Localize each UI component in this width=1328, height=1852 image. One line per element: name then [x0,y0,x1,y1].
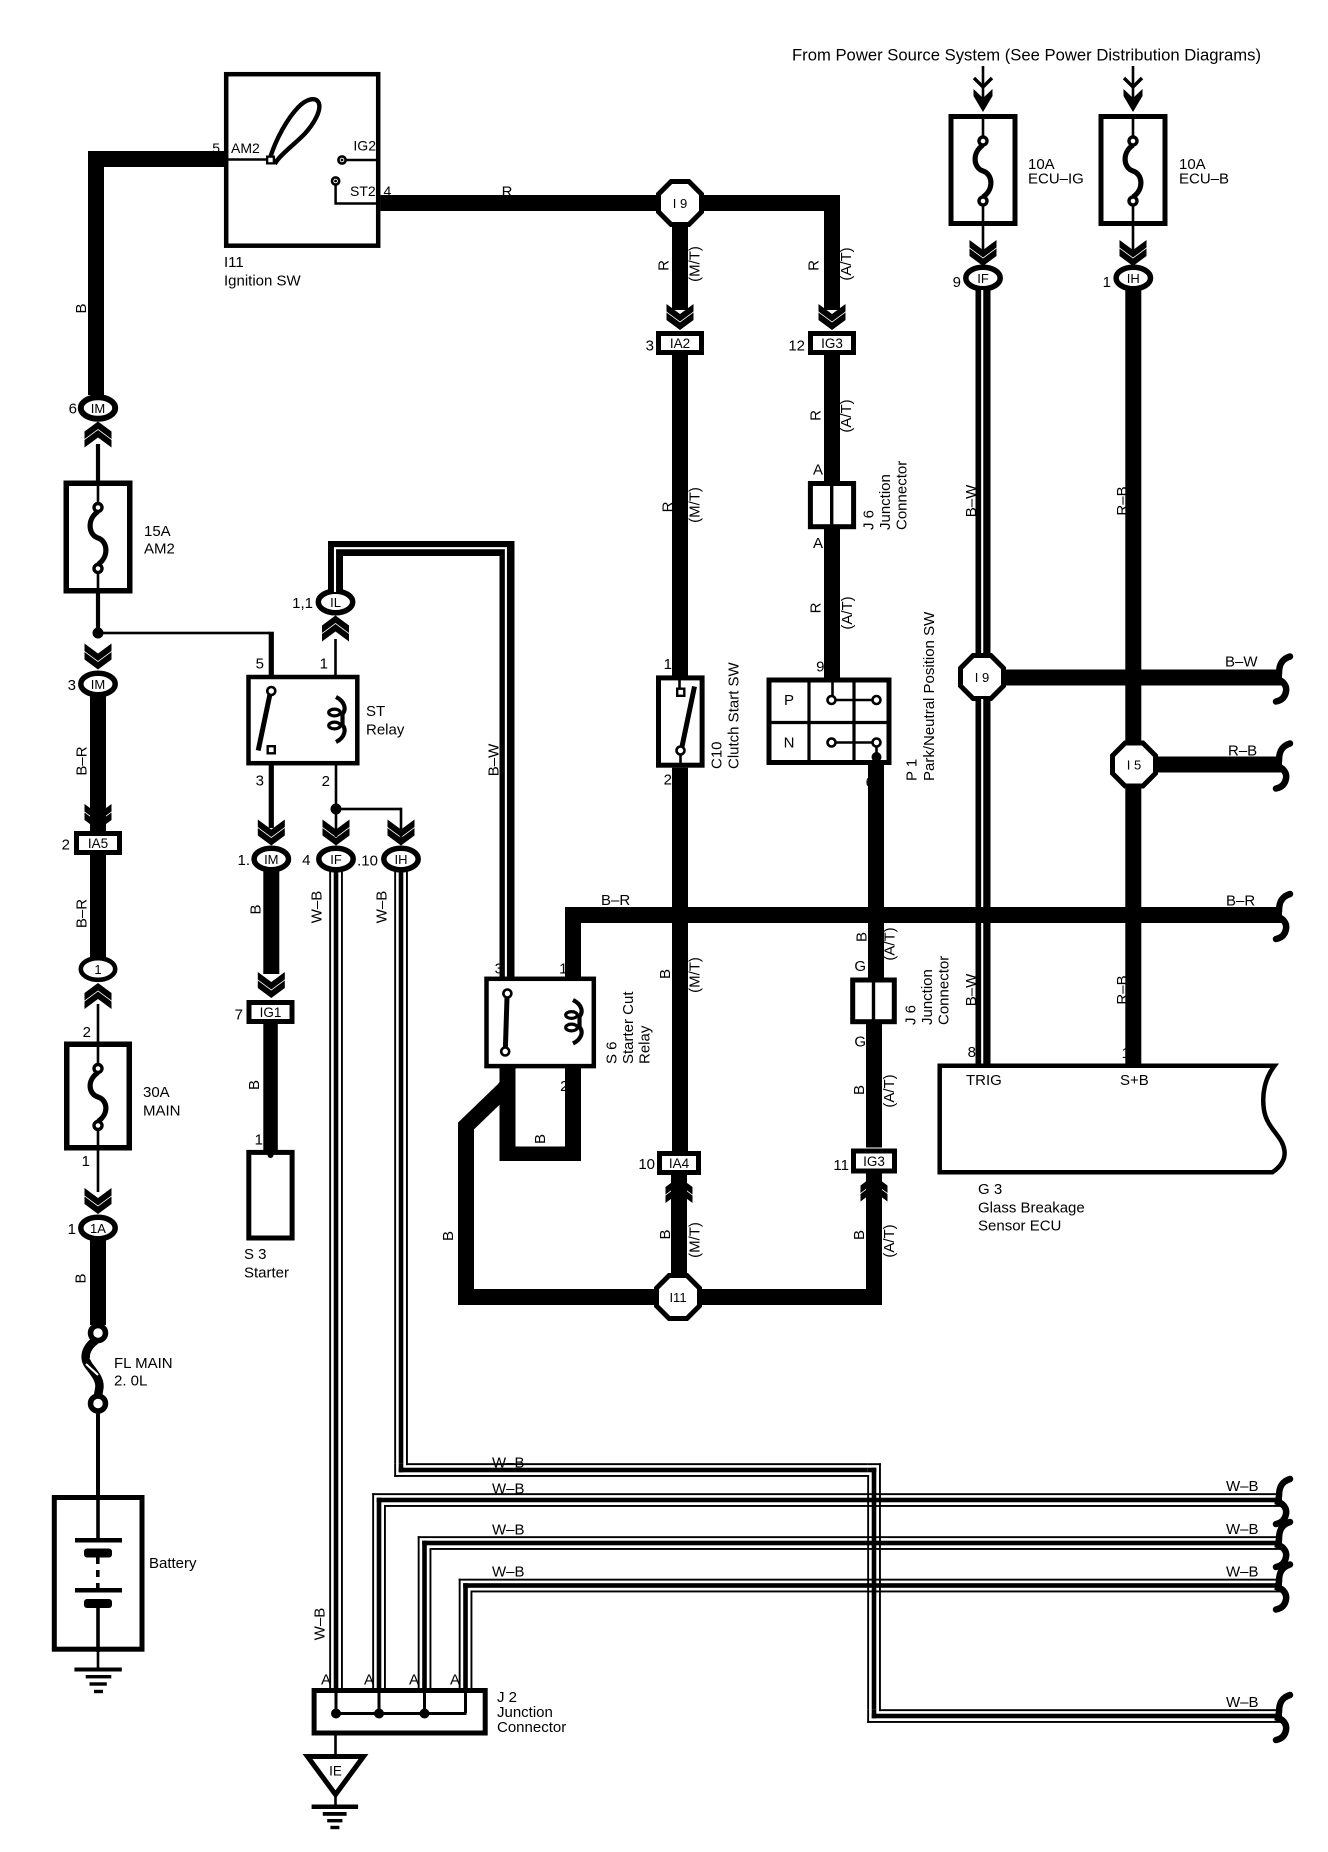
ground symbol below IE [312,1805,359,1810]
ignition switch AM2 contact [266,156,275,165]
wire R-B from I5 down to G3 S+B (thick) [1125,787,1141,1065]
svg-text:B: B [854,932,871,942]
splice I5 [1113,743,1156,786]
svg-text:W–B: W–B [1226,1694,1259,1711]
svg-text:R–B: R–B [1228,743,1257,760]
svg-text:From Power Source System (See: From Power Source System (See Power Dist… [792,47,1261,65]
svg-text:G: G [854,958,866,975]
wire B (A/T) from P1 pin 6 to J6 lower (thick) [868,763,884,978]
svg-text:B: B [246,1080,263,1090]
wire R (A/T) from J6 to park/neutral SW (thick) [824,529,840,679]
svg-text:MAIN: MAIN [143,1103,181,1120]
svg-text:B: B [532,1134,549,1144]
svg-text:Junction: Junction [877,474,894,530]
wire B from 1A to fusible link (thick) [90,1240,106,1325]
svg-text:1: 1 [320,656,328,673]
svg-text:IM: IM [264,852,278,867]
svg-text:1.: 1. [237,852,250,869]
svg-text:I 5: I 5 [1127,758,1141,773]
wire to IF (thin) [335,809,338,837]
svg-text:ST2: ST2 [350,183,376,199]
svg-text:G: G [854,1034,866,1051]
svg-text:I11: I11 [224,254,244,271]
svg-text:IF: IF [977,271,989,286]
svg-text:B: B [440,1231,457,1241]
wire B-W from IF-9 down to splice I9 (striped) [976,290,991,655]
S6 switch [503,990,511,998]
junction connector J6 upper [810,484,853,527]
svg-text:C10: C10 [708,741,725,769]
svg-text:B: B [248,904,265,914]
wire from ST relay pin 1 to IL (thin) [334,639,337,679]
wire B-R corner down to S6 pin 1 [565,907,581,979]
wire R M/T branch from I9 down to IA2 (thick) [672,225,688,310]
svg-text:8: 8 [968,1044,976,1061]
svg-text:2: 2 [62,837,70,854]
svg-text:J 6: J 6 [902,1005,919,1025]
wire B-R from IM-3 to IA5 (thick) [90,696,106,832]
wire from fuse ECU-IG to connector IF [982,226,985,250]
ST relay box [249,677,358,763]
svg-text:IH: IH [1127,271,1140,286]
svg-text:B: B [657,969,674,979]
svg-text:W–B: W–B [309,891,326,924]
svg-text:IG1: IG1 [260,1005,282,1020]
wire R-B from I5 right to edge (thick) [1156,757,1282,773]
svg-text:4: 4 [302,852,310,869]
svg-text:P: P [784,692,794,709]
svg-text:1: 1 [255,1132,263,1149]
wire B (A/T) from IG3-11 down and left to splice I11 (thick) [866,1174,882,1306]
svg-text:7: 7 [235,1007,243,1024]
junction connector J6 lower [853,980,895,1022]
wire branch to ST relay pin 5 (thin) [98,632,270,635]
svg-text:IL: IL [330,595,341,610]
svg-text:IA4: IA4 [669,1156,690,1171]
wire W-B from IF down to J2 (white-black) [329,871,331,1690]
svg-text:B–W: B–W [1225,654,1258,671]
svg-text:3: 3 [256,773,264,790]
svg-text:(M/T): (M/T) [687,487,704,523]
starter cut relay S6 box [487,979,594,1066]
svg-text:(A/T): (A/T) [838,247,855,280]
svg-text:Connector: Connector [935,956,952,1025]
svg-text:IA2: IA2 [670,336,690,351]
wire from ST relay pin 2 to junction (thin) [335,763,338,809]
wire B from S6 pin 4 diagonal down to splice I11 (thick) [466,1078,508,1297]
battery ground symbol [74,1668,121,1672]
wire W-B from IH down then right to vertical run (white-black) [394,871,396,1463]
svg-text:W–B: W–B [492,1481,525,1498]
svg-text:TRIG: TRIG [966,1072,1002,1089]
svg-text:B: B [851,1085,868,1095]
arrow into IG3 [819,304,846,322]
svg-text:R–B: R–B [1114,486,1131,515]
fuse 10A ECU-IG [951,117,1015,224]
arrow up into IA4 [666,1186,693,1204]
svg-text:W–B: W–B [492,1455,525,1472]
svg-text:.10: .10 [357,853,378,870]
svg-text:5: 5 [212,140,220,156]
svg-text:S 3: S 3 [244,1246,267,1263]
squiggle end of B-R [1276,894,1290,939]
arrow into connector IF [970,240,997,258]
wire R from I9 to A/T branch corner (thick) [702,195,840,211]
svg-text:Connector: Connector [497,1719,566,1736]
svg-text:A: A [813,535,823,552]
svg-text:15A: 15A [144,523,171,540]
wire R (M/T) from IA2 to clutch start SW (thick) [672,355,688,676]
C10 switch contacts and blade [678,680,681,688]
ignition switch I11 box [226,74,378,246]
squiggle end of second W-B [1276,1522,1290,1567]
svg-text:W–B: W–B [492,1522,525,1539]
svg-text:B: B [851,1230,868,1240]
arrow up into IL [322,624,349,642]
arrow into connector IH [1120,240,1147,258]
splice I9 top [659,182,702,225]
battery [54,1498,142,1650]
svg-text:B–W: B–W [486,743,503,776]
svg-text:B–R: B–R [74,899,91,928]
svg-text:A: A [813,462,823,479]
arrow down into connector IM-3 [85,644,112,662]
svg-text:W–B: W–B [1226,1478,1259,1495]
wire B-W loop from IL over to starter cut relay (thick with white stripe) [336,549,508,979]
svg-text:2: 2 [322,773,330,790]
J2 internal bus [335,1690,338,1713]
svg-text:IF: IF [330,852,342,867]
wire W-B from J2 up and right to edge - second [418,1536,420,1690]
svg-text:Starter: Starter [244,1265,289,1282]
svg-text:(M/T): (M/T) [687,246,704,282]
svg-text:S 6: S 6 [603,1041,620,1064]
squiggle end of B-W [1276,657,1290,702]
svg-text:Ignition SW: Ignition SW [224,273,302,290]
wire R (A/T) from IG3 to junction connector J6 (thick) [824,355,840,482]
svg-text:(A/T): (A/T) [838,399,855,432]
wire B-W from I9 right to edge (thick) [1004,670,1282,686]
clutch start SW C10 box [659,678,703,765]
svg-text:I 9: I 9 [673,196,687,211]
arrow down into IA5 [85,804,112,822]
svg-text:A: A [364,1672,374,1689]
svg-text:B–W: B–W [963,484,980,517]
svg-text:5: 5 [256,656,264,673]
wire B (M/T) from IA4 to splice I11 (thick) [671,1175,687,1275]
svg-text:10: 10 [638,1156,655,1173]
squiggle end of bottom W-B [1276,1695,1290,1740]
arrow into IG1 [258,972,285,990]
svg-text:IM: IM [91,401,105,416]
starter S3 box [249,1152,292,1238]
wire B-R from IA5 to splice 1 (thick) [90,855,106,958]
squiggle end of R-B [1276,744,1290,789]
svg-text:1A: 1A [90,1221,106,1236]
squiggle end of third W-B [1276,1565,1290,1610]
wire from 30A MAIN fuse up to splice 1 (thin) [97,1004,100,1042]
svg-text:Glass Breakage: Glass Breakage [978,1200,1085,1217]
glass breakage sensor ECU G3 box [940,1066,1285,1173]
svg-text:Battery: Battery [149,1555,197,1572]
wire B from ignition SW AM2 terminal to fusible link rail (thick) [88,151,226,167]
wire from fusible link to battery [96,1411,100,1497]
park/neutral position SW P1 box [769,680,889,763]
ignition switch lever (key) [270,99,319,162]
svg-text:B–R: B–R [601,892,630,909]
svg-text:2: 2 [83,1024,91,1041]
svg-text:I11: I11 [669,1290,686,1305]
svg-text:J 6: J 6 [860,510,877,530]
svg-text:IG2: IG2 [353,138,376,154]
junction connector J2 box [314,1691,485,1734]
splice 1 [81,958,115,980]
svg-text:A: A [321,1672,331,1689]
svg-text:IA5: IA5 [88,836,108,851]
wire from fuse ECU-B to connector IH [1132,226,1135,250]
svg-text:2: 2 [560,1078,568,1095]
branch wire to IH (thin) [336,808,401,811]
svg-text:A: A [409,1672,419,1689]
wire from 15A AM2 fuse up to IM-6 [96,444,100,482]
svg-text:AM2: AM2 [144,541,175,558]
arrow into connector IM-1 [258,820,285,838]
svg-text:(M/T): (M/T) [687,1222,704,1258]
svg-text:G 3: G 3 [978,1181,1002,1198]
svg-text:R–B: R–B [1114,975,1131,1004]
wire B from IM-1 to IG1 (thick) [263,871,279,974]
svg-text:1,1: 1,1 [292,595,313,612]
svg-text:S+B: S+B [1120,1072,1149,1089]
svg-text:9: 9 [816,659,824,676]
svg-text:B: B [73,303,90,313]
svg-text:B: B [657,1229,674,1239]
svg-text:Sensor ECU: Sensor ECU [978,1218,1061,1235]
svg-text:N: N [784,735,795,752]
splice I9 lower [961,656,1004,699]
arrow down into connector 1A [85,1188,112,1206]
svg-text:R: R [656,260,673,271]
svg-text:1: 1 [82,1153,90,1170]
fuse 10A ECU-B [1101,117,1165,224]
svg-text:P 1: P 1 [903,759,920,781]
wire from IE to ground [334,1795,337,1805]
wire B from IG1 to starter (thick) [263,1024,278,1152]
wire R-B from IH-1 down to splice I5 (thick) [1125,290,1141,743]
wire B-W from I9 down to G3 TRIG (striped) [976,699,991,1065]
wire B (M/T) from C10 to IA4 (thick) [672,768,688,1152]
power feed arrow into fuse ECU-B [1132,66,1135,100]
svg-text:Relay: Relay [636,1025,653,1064]
wire from 15A AM2 fuse to junction [96,593,100,633]
svg-text:30A: 30A [143,1084,170,1101]
splice I11 [657,1276,700,1319]
svg-text:11: 11 [833,1157,849,1174]
svg-text:B–W: B–W [963,973,980,1006]
svg-text:W–B: W–B [1226,1564,1259,1581]
ignition switch IG2 contact [338,156,345,163]
svg-text:ECU–IG: ECU–IG [1028,171,1084,188]
ST relay coil [336,697,345,742]
svg-text:ST: ST [366,703,385,720]
svg-text:3: 3 [646,338,654,355]
svg-text:B–R: B–R [1226,893,1255,910]
svg-text:R: R [502,184,513,201]
wire from battery to ground [97,1650,100,1669]
svg-text:AM2: AM2 [231,140,260,156]
svg-text:W–B: W–B [1226,1521,1259,1538]
svg-text:2: 2 [664,772,672,789]
svg-text:Park/Neutral Position SW: Park/Neutral Position SW [921,611,938,781]
svg-text:6: 6 [69,401,77,418]
wire W-B from J2 up and right to edge - third [459,1579,461,1690]
svg-text:1: 1 [1122,1045,1130,1062]
svg-text:B: B [73,1273,90,1283]
ST relay switch [267,687,275,695]
svg-text:W–B: W–B [492,1564,525,1581]
svg-text:(A/T): (A/T) [881,1074,898,1107]
fusible link FL MAIN 2.0L [91,1326,106,1341]
svg-text:IH: IH [395,852,408,867]
wire W-B vertical run down to bottom (white-black) [867,1463,881,1465]
wire from J2 to ground terminal IE [334,1733,337,1756]
svg-text:I 9: I 9 [975,670,989,685]
wire loop from S6 pin 4 to pin 2 (thick) [500,1066,516,1154]
arrow up into splice 1 [85,992,112,1010]
svg-text:Connector: Connector [893,461,910,530]
svg-text:R: R [808,602,825,613]
fuse 30A MAIN [67,1044,130,1148]
svg-text:1: 1 [94,962,101,977]
svg-text:IG3: IG3 [863,1154,885,1169]
power feed arrow into fuse ECU-IG [982,66,985,100]
svg-text:A: A [450,1672,460,1689]
svg-text:IM: IM [91,677,105,692]
svg-text:W–B: W–B [312,1608,329,1641]
wire B-R horizontal to right edge (thick) [565,907,1282,923]
svg-text:1: 1 [68,1221,76,1238]
svg-text:(A/T): (A/T) [881,1224,898,1257]
wire from ST relay pin 3 to IM (medium) [269,763,274,828]
svg-text:(A/T): (A/T) [882,927,899,960]
svg-text:Relay: Relay [366,722,405,739]
fuse 15A AM2 [66,483,130,591]
arrow up into IG3-11 [861,1184,888,1202]
svg-text:R: R [806,260,823,271]
arrow up into connector IM-6 [85,430,112,448]
svg-text:Starter Cut: Starter Cut [620,991,637,1064]
svg-text:Junction: Junction [919,969,936,1025]
arrow into connector IF-4 [323,820,350,838]
svg-text:R: R [808,410,825,421]
svg-text:1: 1 [1103,274,1111,291]
junction dot at ST relay branch [93,628,104,639]
arrow into connector IH-10 [388,820,415,838]
wire B (A/T) from J6 lower to IG3-11 (thick) [866,1022,882,1148]
svg-text:3: 3 [495,961,503,978]
arrow into IA2 [667,304,694,322]
wire W-B from J2 up and right to edge - first [372,1493,374,1690]
junction dot below ST relay pin 2 [331,804,342,815]
svg-text:R: R [660,501,677,512]
svg-text:IE: IE [329,1764,342,1779]
svg-text:12: 12 [788,338,805,355]
svg-text:2. 0L: 2. 0L [114,1373,147,1390]
svg-text:1: 1 [664,656,672,673]
svg-text:W–B: W–B [374,891,391,924]
wire from 30A MAIN to connector 1A (thin) [97,1150,100,1192]
svg-text:(M/T): (M/T) [687,957,704,993]
svg-text:(A/T): (A/T) [839,596,856,629]
svg-text:IG3: IG3 [821,336,843,351]
ground terminal IE triangle [308,1757,364,1795]
S6 coil [573,1000,582,1044]
wire R from ignition ST2 to splice I9 (thick) [381,195,658,211]
svg-text:FL MAIN: FL MAIN [114,1355,173,1372]
svg-text:ECU–B: ECU–B [1179,171,1229,188]
svg-text:3: 3 [68,677,76,694]
ignition switch ST2 contact [332,177,339,184]
svg-text:9: 9 [953,274,961,291]
svg-text:B–R: B–R [74,746,91,775]
squiggle end of first W-B [1276,1479,1290,1524]
svg-text:Clutch Start SW: Clutch Start SW [725,661,742,769]
